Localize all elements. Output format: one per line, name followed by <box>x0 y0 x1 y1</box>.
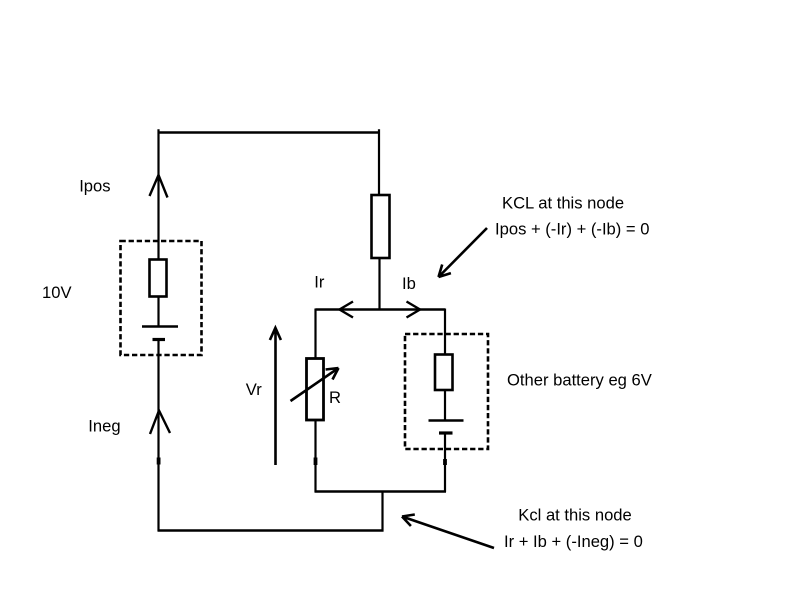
wire right vertical from top <box>378 129 380 196</box>
battery B1 dashed enclosure <box>121 241 202 355</box>
svg-text:Ir: Ir <box>314 273 325 292</box>
svg-text:R: R <box>329 388 341 407</box>
current arrow Ipos <box>150 175 168 198</box>
svg-text:Ipos: Ipos <box>79 177 110 196</box>
resistor series top <box>372 195 390 258</box>
wire resistor R to bottom <box>314 420 316 492</box>
wire left vertical upper <box>157 129 159 260</box>
wire top horizontal <box>158 131 381 133</box>
current arrow Ir on node wire <box>340 302 354 318</box>
current arrow Ineg <box>150 411 170 435</box>
resistor R (variable) <box>307 359 324 421</box>
wire left vertical lower <box>157 340 159 532</box>
wire B1 resistor to cell <box>157 297 159 328</box>
svg-text:Ineg: Ineg <box>88 417 120 436</box>
svg-text:Kcl at this node: Kcl at this node <box>518 506 631 525</box>
battery B2 dashed enclosure <box>405 334 488 449</box>
wire overlap joint R branch <box>314 458 318 466</box>
battery B2 negative plate <box>439 431 453 434</box>
wire node to B2 <box>444 309 446 356</box>
battery B2 positive plate <box>429 419 464 422</box>
svg-text:10V: 10V <box>42 283 72 302</box>
resistor internal resistance of B1 <box>150 260 167 297</box>
battery B1 positive plate <box>142 325 178 328</box>
svg-text:Ipos + (-Ir) + (-Ib) = 0: Ipos + (-Ir) + (-Ib) = 0 <box>495 219 649 238</box>
arrow Vr voltage reference <box>270 328 281 465</box>
svg-text:Ir + Ib + (-Ineg) = 0: Ir + Ib + (-Ineg) = 0 <box>504 532 643 551</box>
wire node to resistor R <box>314 309 316 360</box>
svg-text:Ib: Ib <box>402 274 416 293</box>
wire overlap joint B2 branch <box>443 459 447 465</box>
wire B2 to bottom <box>444 433 446 492</box>
battery B1 negative plate <box>153 338 166 341</box>
node wire horizontal <box>316 308 446 310</box>
annotation arrow KCL bottom node <box>402 515 494 549</box>
wire B2 resistor to cell <box>444 390 446 421</box>
svg-text:Other battery eg 6V: Other battery eg 6V <box>507 371 652 390</box>
arrow variable resistor diagonal <box>291 368 339 401</box>
annotation arrow KCL top node <box>439 228 488 277</box>
wire top resistor to node <box>378 258 380 310</box>
wire bottom left horizontal <box>158 529 384 531</box>
wire bottom node riser <box>381 492 383 532</box>
svg-text:Vr: Vr <box>246 380 262 399</box>
current arrow Ib on node wire <box>407 302 421 318</box>
resistor internal resistance of B2 <box>435 355 453 391</box>
wire bottom middle horizontal <box>315 490 447 492</box>
svg-text:KCL at this node: KCL at this node <box>502 194 624 213</box>
wire overlap joint left branch <box>157 458 161 465</box>
